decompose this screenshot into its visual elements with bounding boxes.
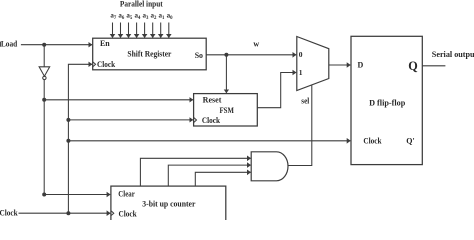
svg-text:a7: a7 [110, 12, 117, 21]
wire to FSM Clock [68, 119, 192, 121]
svg-text:Shift Register: Shift Register [127, 50, 171, 59]
svg-text:0: 0 [299, 50, 303, 59]
wire parallel input arrow 4 [136, 23, 138, 38]
wire to counter Clear [44, 194, 110, 196]
svg-text:a6: a6 [118, 12, 125, 21]
counter box [111, 186, 226, 223]
wire counter out bit to AND input 2 [168, 165, 250, 186]
wire inverter output down [43, 80, 45, 195]
wire junction down to inverter [43, 45, 45, 67]
node junction clear corner [42, 193, 46, 197]
svg-text:a4: a4 [134, 12, 141, 21]
wire parallel input arrow 7 [160, 23, 162, 38]
FSM clock wedge [194, 117, 197, 122]
wire Load to En [21, 44, 92, 46]
svg-text:Clock: Clock [363, 137, 382, 146]
svg-text:a3: a3 [142, 12, 149, 21]
wire parallel input arrow 6 [152, 23, 154, 38]
svg-text:a1: a1 [159, 12, 166, 21]
node junction dff clock [66, 139, 70, 143]
wire Clock bottom to counter [19, 212, 111, 214]
left edge tick mark [0, 42, 2, 47]
svg-text:sel: sel [301, 96, 310, 105]
node junction clock vertical [66, 211, 70, 215]
svg-text:Clear: Clear [118, 189, 135, 198]
wire parallel input arrow 2 [120, 23, 122, 38]
inverter bubble [43, 76, 46, 79]
svg-text:D flip-flop: D flip-flop [369, 98, 406, 107]
wire to FSM Reset [44, 99, 193, 101]
svg-text:Reset: Reset [203, 95, 222, 104]
svg-text:a5: a5 [126, 12, 133, 21]
node junction So branch [224, 53, 228, 57]
svg-text:Clock: Clock [0, 209, 18, 218]
svg-text:w: w [253, 40, 259, 49]
svg-text:3-bit up counter: 3-bit up counter [142, 200, 196, 209]
wire mux output to D [329, 64, 351, 66]
svg-text:Parallel input: Parallel input [120, 0, 163, 9]
svg-text:a0: a0 [167, 12, 174, 21]
D flip-flop box [351, 36, 422, 164]
shift register clock wedge [93, 62, 96, 67]
mux 2-to-1 trapezoid [297, 37, 329, 91]
inverter NOT gate [39, 67, 50, 76]
node junction reset branch [42, 98, 46, 102]
svg-text:Serial output: Serial output [432, 50, 474, 59]
counter clock wedge [111, 211, 114, 216]
svg-text:Q: Q [408, 59, 417, 73]
wire clock distribution vertical [68, 64, 92, 213]
wire to DFF Clock [68, 140, 350, 142]
svg-text:1: 1 [299, 68, 303, 77]
wire parallel input arrow 3 [128, 23, 130, 38]
svg-text:Q': Q' [406, 137, 414, 146]
wire counter out bit to AND input 1 [140, 158, 250, 186]
wire So branch down to FSM top [225, 55, 227, 93]
svg-text:Clock: Clock [119, 209, 138, 218]
svg-text:Clock: Clock [202, 116, 221, 125]
wire parallel input arrow 1 [112, 23, 114, 38]
node junction Load/inverter [42, 43, 46, 47]
wire So to mux 0 [206, 54, 296, 56]
svg-text:En: En [100, 39, 110, 48]
svg-text:D: D [358, 61, 364, 70]
wire counter out bit to AND input 3 [195, 172, 250, 186]
svg-text:Clock: Clock [97, 60, 116, 69]
svg-text:FSM: FSM [220, 106, 235, 115]
wire AND output to mux sel [288, 85, 312, 165]
FSM box [194, 94, 258, 126]
svg-text:So: So [195, 51, 203, 60]
shift register U1 box [93, 38, 207, 70]
wire Q to serial output [422, 65, 445, 67]
svg-text:Load: Load [1, 40, 18, 49]
wire parallel input arrow 8 [168, 23, 170, 38]
wire FSM output to mux 1 [257, 73, 296, 108]
node junction fsm clock [66, 118, 70, 122]
svg-text:a2: a2 [151, 12, 158, 21]
AND gate [251, 152, 288, 181]
wire parallel input arrow 5 [144, 23, 146, 38]
